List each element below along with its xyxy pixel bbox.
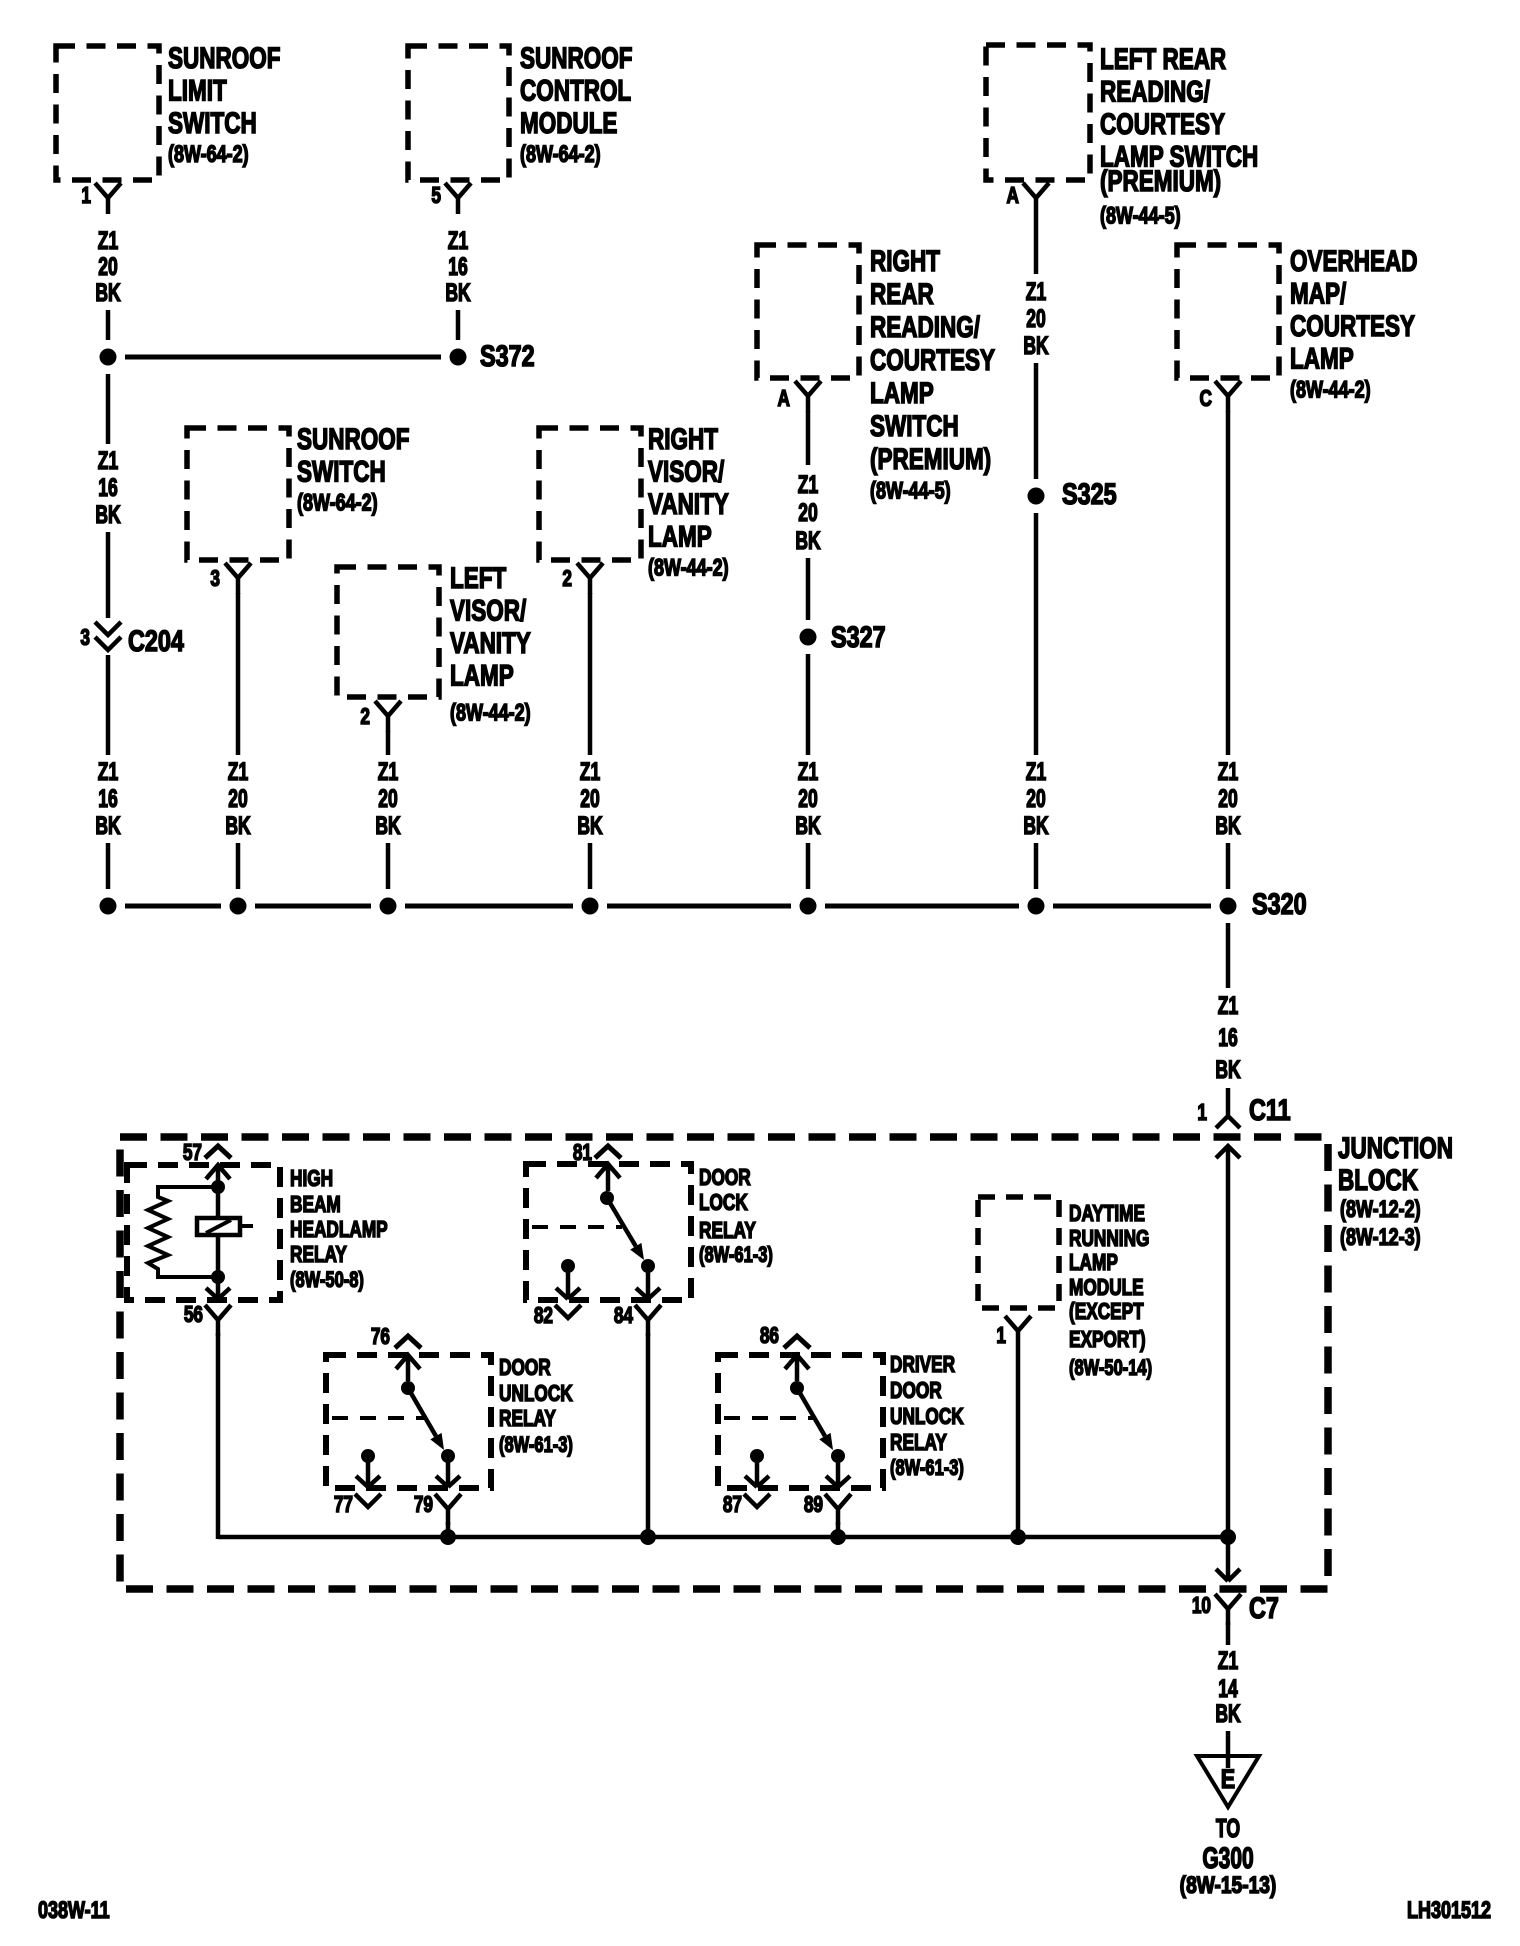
svg-text:5: 5 bbox=[431, 184, 441, 209]
wire from right visor lamp to bus S320 bbox=[588, 593, 593, 755]
wire segment to bus S320 bbox=[1226, 843, 1231, 889]
svg-text:S325: S325 bbox=[1062, 477, 1117, 510]
svg-text:77: 77 bbox=[334, 1493, 353, 1518]
svg-text:DOOR: DOOR bbox=[890, 1379, 942, 1404]
component box LEFT VISOR/VANITY LAMP bbox=[337, 567, 439, 697]
svg-text:86: 86 bbox=[760, 1324, 779, 1349]
svg-text:BK: BK bbox=[95, 500, 121, 529]
relay coil stub to box edge bbox=[240, 1224, 253, 1228]
svg-text:COURTESY: COURTESY bbox=[1100, 107, 1225, 141]
svg-text:HIGH: HIGH bbox=[290, 1167, 333, 1192]
wire segment to ground triangle bbox=[1226, 1731, 1231, 1768]
svg-text:(8W-61-3): (8W-61-3) bbox=[499, 1433, 573, 1458]
svg-text:RIGHT: RIGHT bbox=[648, 422, 718, 456]
svg-text:76: 76 bbox=[371, 1325, 390, 1350]
svg-text:UNLOCK: UNLOCK bbox=[890, 1405, 964, 1430]
svg-text:BK: BK bbox=[445, 278, 471, 307]
svg-text:BK: BK bbox=[1023, 331, 1049, 360]
relay switch common dot bbox=[790, 1381, 804, 1395]
svg-text:E: E bbox=[1221, 1765, 1235, 1795]
relay center dashed line bbox=[332, 1416, 424, 1420]
svg-text:Z1: Z1 bbox=[98, 446, 118, 475]
svg-text:BK: BK bbox=[1215, 1699, 1241, 1728]
svg-text:UNLOCK: UNLOCK bbox=[499, 1382, 573, 1407]
relay switch blade with arrowhead bbox=[607, 1198, 636, 1246]
svg-text:VISOR/: VISOR/ bbox=[450, 593, 527, 627]
wire segment to node S325 bbox=[1034, 363, 1039, 479]
arrow into relay pin 57 bbox=[206, 1165, 230, 1181]
svg-text:Z1: Z1 bbox=[98, 757, 118, 786]
svg-text:20: 20 bbox=[798, 784, 817, 813]
svg-text:56: 56 bbox=[184, 1303, 203, 1328]
svg-text:87: 87 bbox=[723, 1493, 742, 1518]
connector pin A Y symbol bbox=[795, 381, 821, 412]
wire from pin 79 to junction bus bbox=[446, 1522, 451, 1539]
svg-text:SUNROOF: SUNROOF bbox=[520, 41, 632, 75]
svg-text:SWITCH: SWITCH bbox=[297, 454, 386, 488]
svg-text:SWITCH: SWITCH bbox=[168, 106, 257, 140]
svg-text:20: 20 bbox=[580, 784, 599, 813]
svg-text:Z1: Z1 bbox=[1218, 1646, 1238, 1675]
svg-text:CONTROL: CONTROL bbox=[520, 73, 631, 107]
connector pin 2 Y symbol bbox=[375, 701, 401, 732]
connector pin 5 Y symbol bbox=[445, 183, 471, 214]
relay switch common dot bbox=[600, 1191, 614, 1205]
svg-text:BK: BK bbox=[1215, 1055, 1241, 1084]
pin 86 chevron bbox=[784, 1336, 810, 1348]
svg-text:COURTESY: COURTESY bbox=[870, 343, 995, 377]
svg-text:RELAY: RELAY bbox=[290, 1243, 347, 1268]
svg-text:(8W-50-14): (8W-50-14) bbox=[1069, 1356, 1152, 1381]
component box SUNROOF SWITCH bbox=[187, 428, 289, 560]
svg-text:REAR: REAR bbox=[870, 277, 934, 311]
svg-text:84: 84 bbox=[614, 1304, 634, 1329]
connector pin 3 Y symbol bbox=[225, 563, 251, 594]
svg-text:MODULE: MODULE bbox=[520, 106, 617, 140]
svg-text:(PREMIUM): (PREMIUM) bbox=[870, 442, 991, 476]
svg-text:Z1: Z1 bbox=[1218, 757, 1238, 786]
pin 1 Y connector bbox=[1005, 1316, 1031, 1347]
svg-text:HEADLAMP: HEADLAMP bbox=[290, 1218, 388, 1243]
S320 junction dot w1 bbox=[100, 898, 117, 915]
svg-text:SUNROOF: SUNROOF bbox=[168, 41, 280, 75]
wire segment to bus S320 bbox=[106, 843, 111, 889]
wire segment to bus S320 bbox=[1034, 843, 1039, 889]
svg-text:16: 16 bbox=[448, 252, 467, 281]
svg-text:MODULE: MODULE bbox=[1069, 1276, 1144, 1301]
svg-text:OVERHEAD: OVERHEAD bbox=[1290, 244, 1417, 278]
svg-text:DAYTIME: DAYTIME bbox=[1069, 1202, 1145, 1227]
wire from left visor lamp to bus S320 bbox=[386, 731, 391, 755]
svg-text:RIGHT: RIGHT bbox=[870, 244, 940, 278]
svg-text:(8W-64-2): (8W-64-2) bbox=[168, 142, 249, 168]
component box RIGHT REAR READING/COURTESY LAMP SWITCH (PREMIUM) bbox=[757, 245, 859, 378]
svg-text:LAMP: LAMP bbox=[648, 519, 712, 553]
svg-text:BK: BK bbox=[577, 811, 603, 840]
svg-text:RELAY: RELAY bbox=[499, 1407, 556, 1432]
relay box DOOR UNLOCK RELAY bbox=[326, 1355, 491, 1488]
svg-text:Z1: Z1 bbox=[1218, 991, 1238, 1020]
svg-text:16: 16 bbox=[1218, 1023, 1237, 1052]
wire from C11 down to junction block bus bbox=[1226, 1146, 1231, 1537]
svg-text:10: 10 bbox=[1192, 1594, 1211, 1619]
pin 89 Y connector bbox=[825, 1494, 851, 1525]
relay contact dot pin 77 bbox=[361, 1449, 375, 1463]
relay switch blade with arrowhead bbox=[797, 1388, 825, 1436]
wire from S327 to bus S320 bbox=[806, 654, 811, 755]
wire segment to bus S320 bbox=[806, 843, 811, 889]
svg-text:Z1: Z1 bbox=[378, 757, 398, 786]
svg-text:16: 16 bbox=[98, 784, 117, 813]
svg-text:SWITCH: SWITCH bbox=[870, 409, 959, 443]
arrow out of junction block to C7 bbox=[1216, 1537, 1240, 1581]
arrow out of relay pin 87 bbox=[745, 1456, 769, 1487]
node S372 left junction dot bbox=[100, 349, 117, 366]
relay box DRIVER DOOR UNLOCK RELAY bbox=[718, 1355, 883, 1488]
component box LEFT REAR READING/COURTESY LAMP SWITCH (PREMIUM) bbox=[986, 45, 1090, 180]
svg-text:LOCK: LOCK bbox=[699, 1191, 748, 1216]
arrow into junction block at C11 bbox=[1216, 1146, 1240, 1158]
wire from sunroof control module to node S372 bbox=[456, 310, 461, 340]
svg-text:S320: S320 bbox=[1252, 887, 1307, 920]
relay internal node bottom dot bbox=[211, 1270, 225, 1284]
connector pin 1 Y symbol bbox=[95, 183, 121, 214]
arrow into relay pin 86 bbox=[785, 1355, 809, 1381]
relay box DOOR LOCK RELAY bbox=[526, 1164, 691, 1300]
connector C204 double chevron symbol bbox=[95, 622, 121, 650]
arrow out of relay pin 82 bbox=[556, 1266, 580, 1299]
svg-text:C204: C204 bbox=[128, 624, 184, 657]
svg-text:VANITY: VANITY bbox=[450, 626, 531, 660]
svg-text:DRIVER: DRIVER bbox=[890, 1353, 955, 1378]
arrow into relay pin 81 bbox=[596, 1164, 620, 1191]
component box RIGHT VISOR/VANITY LAMP bbox=[539, 428, 641, 560]
wire relay coil vertical bbox=[216, 1187, 221, 1277]
relay center dashed line bbox=[532, 1225, 622, 1229]
arrow out of relay pin 89 bbox=[826, 1456, 850, 1487]
arrow out of relay pin 56 bbox=[206, 1277, 230, 1299]
wire from sunroof limit switch to node S372 bbox=[106, 310, 111, 340]
svg-text:(EXCEPT: (EXCEPT bbox=[1069, 1300, 1144, 1325]
svg-text:3: 3 bbox=[80, 626, 90, 651]
svg-text:(8W-50-8): (8W-50-8) bbox=[290, 1268, 364, 1293]
wire from C204 down to bus S320 bbox=[106, 655, 111, 755]
relay contact dot pin 89 bbox=[831, 1449, 845, 1463]
svg-text:BLOCK: BLOCK bbox=[1338, 1163, 1418, 1197]
svg-text:RELAY: RELAY bbox=[699, 1219, 756, 1244]
junction bus dot at pin 89 wire bbox=[830, 1529, 846, 1545]
svg-text:C: C bbox=[1200, 387, 1213, 412]
svg-text:LEFT: LEFT bbox=[450, 561, 506, 595]
relay box HIGH BEAM HEADLAMP RELAY bbox=[127, 1165, 280, 1300]
svg-text:57: 57 bbox=[183, 1141, 202, 1166]
connector C11 symbol bbox=[1216, 1116, 1240, 1128]
wire from S325 to bus S320 bbox=[1034, 513, 1039, 755]
pin 87 V connector bbox=[744, 1494, 770, 1507]
svg-text:(8W-64-2): (8W-64-2) bbox=[520, 142, 601, 168]
component box SUNROOF CONTROL MODULE bbox=[408, 46, 509, 180]
svg-text:1: 1 bbox=[996, 1324, 1006, 1349]
S320 junction dot w6 bbox=[800, 898, 817, 915]
svg-text:LH301512: LH301512 bbox=[1407, 1898, 1491, 1924]
svg-text:(8W-15-13): (8W-15-13) bbox=[1180, 1871, 1277, 1899]
svg-text:038W-11: 038W-11 bbox=[38, 1898, 110, 1924]
relay contact dot pin 79 bbox=[441, 1449, 455, 1463]
svg-text:Z1: Z1 bbox=[98, 226, 118, 255]
component box DAYTIME RUNNING LAMP MODULE bbox=[978, 1197, 1059, 1308]
svg-text:(8W-12-2): (8W-12-2) bbox=[1340, 1197, 1421, 1223]
relay contact dot pin 87 bbox=[750, 1449, 764, 1463]
svg-text:Z1: Z1 bbox=[1026, 277, 1046, 306]
svg-text:LAMP: LAMP bbox=[1069, 1251, 1118, 1276]
wire segment to bus S320 bbox=[588, 843, 593, 889]
arrow out of relay pin 79 bbox=[436, 1456, 460, 1487]
svg-text:EXPORT): EXPORT) bbox=[1069, 1328, 1146, 1353]
svg-text:READING/: READING/ bbox=[1100, 74, 1210, 108]
node S372 right junction dot bbox=[450, 349, 467, 366]
connector pin C Y symbol bbox=[1215, 381, 1241, 412]
svg-text:20: 20 bbox=[98, 252, 117, 281]
arrow into relay pin 76 bbox=[396, 1355, 420, 1381]
relay coil box bbox=[197, 1218, 240, 1235]
svg-text:Z1: Z1 bbox=[448, 226, 468, 255]
svg-text:(8W-44-5): (8W-44-5) bbox=[1100, 203, 1181, 229]
pin 76 chevron bbox=[395, 1336, 421, 1348]
node S372 splice wire bbox=[125, 355, 441, 360]
S320 junction dot w8 bbox=[1220, 898, 1237, 915]
svg-text:MAP/: MAP/ bbox=[1290, 276, 1347, 310]
svg-text:RUNNING: RUNNING bbox=[1069, 1227, 1149, 1252]
svg-text:Z1: Z1 bbox=[228, 757, 248, 786]
svg-text:DOOR: DOOR bbox=[499, 1356, 551, 1381]
node S327 junction dot bbox=[800, 629, 817, 646]
wire from right rear lamp switch to node S327 bbox=[806, 411, 811, 465]
svg-text:89: 89 bbox=[804, 1493, 823, 1518]
svg-text:3: 3 bbox=[210, 567, 220, 592]
svg-text:1: 1 bbox=[81, 184, 91, 209]
connector pin A Y symbol bbox=[1023, 183, 1049, 214]
junction block internal bus wire bbox=[218, 1535, 1228, 1540]
svg-text:Z1: Z1 bbox=[1026, 757, 1046, 786]
svg-text:20: 20 bbox=[1218, 784, 1237, 813]
svg-text:RELAY: RELAY bbox=[890, 1431, 947, 1456]
svg-text:Z1: Z1 bbox=[580, 757, 600, 786]
svg-text:(8W-61-3): (8W-61-3) bbox=[890, 1456, 964, 1481]
pin 79 Y connector bbox=[435, 1494, 461, 1525]
svg-text:SUNROOF: SUNROOF bbox=[297, 422, 409, 456]
svg-text:READING/: READING/ bbox=[870, 310, 980, 344]
svg-text:20: 20 bbox=[1026, 784, 1045, 813]
wire segment to connector C11 bbox=[1226, 1088, 1231, 1116]
bus wire S320 bbox=[125, 904, 221, 909]
wire from S320 down to connector C11 bbox=[1226, 923, 1231, 988]
wire from pin 89 to junction bus bbox=[836, 1522, 841, 1539]
svg-text:(PREMIUM): (PREMIUM) bbox=[1100, 164, 1221, 198]
svg-text:20: 20 bbox=[378, 784, 397, 813]
svg-text:(8W-12-3): (8W-12-3) bbox=[1340, 1225, 1421, 1251]
svg-text:BEAM: BEAM bbox=[290, 1193, 341, 1218]
svg-text:S327: S327 bbox=[831, 620, 886, 653]
svg-text:BK: BK bbox=[795, 526, 821, 555]
svg-text:(8W-64-2): (8W-64-2) bbox=[297, 490, 378, 516]
pin 82 V connector bbox=[555, 1305, 581, 1318]
svg-text:2: 2 bbox=[360, 705, 370, 730]
relay coil resistor zigzag bbox=[148, 1187, 218, 1277]
relay switch common dot bbox=[401, 1381, 415, 1395]
svg-text:A: A bbox=[1007, 184, 1020, 209]
svg-text:LAMP: LAMP bbox=[1290, 341, 1354, 375]
svg-text:20: 20 bbox=[228, 784, 247, 813]
relay contact dot pin 82 bbox=[561, 1259, 575, 1273]
svg-text:Z1: Z1 bbox=[798, 757, 818, 786]
wire from pin 84 to junction bus bbox=[646, 1333, 651, 1539]
wire from S372 down to connector C204 bbox=[106, 374, 111, 444]
arrow out of relay pin 84 bbox=[636, 1266, 660, 1299]
svg-text:BK: BK bbox=[95, 278, 121, 307]
svg-text:(8W-44-2): (8W-44-2) bbox=[450, 700, 531, 726]
connector C7 Y symbol bbox=[1215, 1594, 1241, 1625]
svg-text:LAMP: LAMP bbox=[450, 658, 514, 692]
junction block dashed border bbox=[120, 1137, 1328, 1589]
svg-text:BK: BK bbox=[795, 811, 821, 840]
svg-text:C11: C11 bbox=[1249, 1093, 1291, 1126]
svg-text:20: 20 bbox=[798, 498, 817, 527]
wire segment to bus S320 bbox=[236, 843, 241, 889]
S320 junction dot w5 bbox=[582, 898, 599, 915]
svg-text:BK: BK bbox=[375, 811, 401, 840]
relay coil box diagonal bbox=[206, 1220, 231, 1233]
junction bus dot at C11/C7 wire bbox=[1220, 1529, 1236, 1545]
wire segment to node S327 bbox=[806, 558, 811, 620]
wire from left rear lamp switch to node S325 bbox=[1034, 214, 1039, 274]
svg-text:Z1: Z1 bbox=[798, 470, 818, 499]
relay internal node top dot bbox=[211, 1180, 225, 1194]
svg-text:79: 79 bbox=[414, 1493, 433, 1518]
svg-text:VISOR/: VISOR/ bbox=[648, 454, 725, 488]
svg-text:COURTESY: COURTESY bbox=[1290, 309, 1415, 343]
svg-text:20: 20 bbox=[1026, 304, 1045, 333]
wire from C7 down to ground bbox=[1226, 1622, 1231, 1645]
svg-text:82: 82 bbox=[534, 1304, 553, 1329]
junction bus dot at pin 84 wire bbox=[640, 1529, 656, 1545]
junction bus dot at pin 79 wire bbox=[440, 1529, 456, 1545]
svg-text:LAMP: LAMP bbox=[870, 376, 934, 410]
svg-text:DOOR: DOOR bbox=[699, 1166, 751, 1191]
svg-text:(8W-44-2): (8W-44-2) bbox=[1290, 377, 1371, 403]
svg-text:2: 2 bbox=[562, 567, 572, 592]
pin 56 Y connector bbox=[205, 1305, 231, 1336]
svg-text:(8W-61-3): (8W-61-3) bbox=[699, 1243, 773, 1268]
arrow out of relay pin 77 bbox=[356, 1456, 380, 1487]
pin 57 chevron bbox=[205, 1146, 231, 1158]
svg-text:C7: C7 bbox=[1249, 1591, 1279, 1624]
svg-text:S372: S372 bbox=[480, 339, 535, 372]
svg-text:BK: BK bbox=[1215, 811, 1241, 840]
component box OVERHEAD MAP/COURTESY LAMP bbox=[1177, 245, 1279, 378]
junction bus dot at DRL wire bbox=[1010, 1529, 1026, 1545]
svg-text:1: 1 bbox=[1197, 1101, 1207, 1126]
S320 junction dot w4 bbox=[380, 898, 397, 915]
svg-text:A: A bbox=[778, 387, 791, 412]
svg-text:BK: BK bbox=[225, 811, 251, 840]
relay contact dot pin 84 bbox=[641, 1259, 655, 1273]
wire segment above C204 bbox=[106, 532, 111, 618]
svg-text:VANITY: VANITY bbox=[648, 487, 729, 521]
wire from pin 56 to junction bus bbox=[216, 1333, 221, 1539]
node S325 junction dot bbox=[1028, 488, 1045, 505]
svg-text:BK: BK bbox=[1023, 811, 1049, 840]
svg-text:16: 16 bbox=[98, 473, 117, 502]
svg-text:JUNCTION: JUNCTION bbox=[1338, 1131, 1453, 1165]
pin 84 Y connector bbox=[635, 1305, 661, 1336]
wire from overhead map lamp to bus S320 bbox=[1226, 411, 1231, 755]
pin 81 chevron bbox=[595, 1146, 621, 1158]
relay switch blade with arrowhead bbox=[408, 1388, 436, 1436]
wire from DRL module to junction bus bbox=[1016, 1347, 1021, 1539]
S320 junction dot w7 bbox=[1028, 898, 1045, 915]
wire from sunroof switch to bus S320 bbox=[236, 593, 241, 755]
wire segment to bus S320 bbox=[386, 843, 391, 889]
component box SUNROOF LIMIT SWITCH bbox=[56, 46, 159, 180]
S320 junction dot w3 bbox=[230, 898, 247, 915]
connector pin 2 Y symbol bbox=[577, 563, 603, 594]
svg-text:LIMIT: LIMIT bbox=[168, 73, 227, 107]
svg-text:BK: BK bbox=[95, 811, 121, 840]
svg-text:TO: TO bbox=[1216, 1814, 1240, 1843]
ground triangle E bbox=[1197, 1756, 1259, 1807]
svg-text:LEFT REAR: LEFT REAR bbox=[1100, 42, 1226, 76]
svg-text:(8W-44-5): (8W-44-5) bbox=[870, 478, 951, 504]
relay center dashed line bbox=[724, 1416, 816, 1420]
svg-text:(8W-44-2): (8W-44-2) bbox=[648, 555, 729, 581]
pin 77 V connector bbox=[355, 1494, 381, 1507]
